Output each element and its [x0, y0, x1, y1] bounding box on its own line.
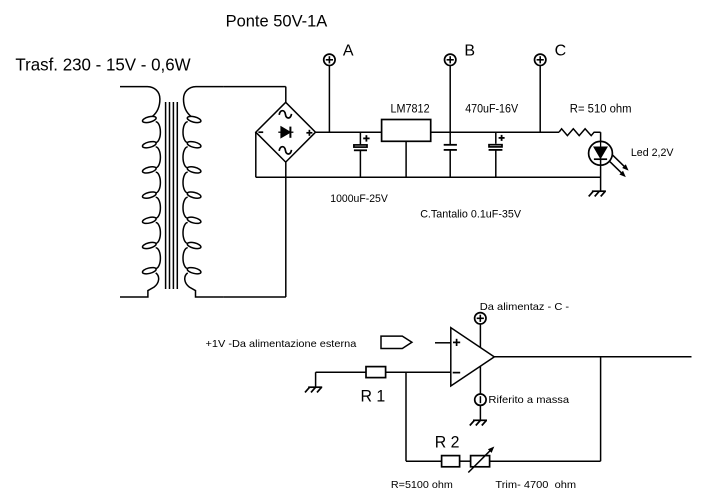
svg-text:R= 510 ohm: R= 510 ohm: [570, 103, 632, 115]
bridge diode symbol: [278, 127, 293, 138]
capacitor C1 wire top: [359, 132, 361, 144]
trimmer box: [471, 456, 490, 467]
wire bridge left tip down: [255, 132, 257, 177]
wire bridge bottom to secondary return: [285, 162, 287, 297]
wire output junction down: [600, 357, 602, 461]
capacitor C3 470uF plates: [489, 145, 502, 147]
resistor R2 box: [442, 456, 460, 467]
op-amp minus input mark: [453, 372, 461, 374]
svg-text:R 2: R 2: [435, 434, 460, 452]
svg-text:R=5100 ohm: R=5100 ohm: [391, 479, 453, 491]
resistor R1 box: [366, 367, 386, 378]
node A wire: [328, 66, 330, 133]
upper bus wire regulator to resistor: [431, 131, 559, 133]
upper bus wire bridge to regulator: [316, 131, 382, 133]
svg-text:B: B: [464, 43, 475, 60]
svg-text:R 1: R 1: [361, 388, 386, 406]
svg-text:Da alimentaz - C -: Da alimentaz - C -: [480, 301, 570, 313]
svg-text:+1V -Da alimentazione esterna: +1V -Da alimentazione esterna: [206, 338, 357, 350]
svg-text:470uF-16V: 470uF-16V: [465, 103, 518, 115]
capacitor C2 wire top: [449, 132, 451, 145]
bridge rectifier D1 diamond: [256, 102, 316, 162]
wire reference to ground: [479, 405, 481, 420]
regulator ground pin wire: [405, 141, 407, 177]
capacitor C3 wire top: [495, 132, 497, 144]
LED wire from resistor: [600, 132, 602, 141]
op-amp U1 triangle: [451, 328, 495, 386]
svg-text:A: A: [343, 43, 354, 60]
node B terminal: [445, 54, 456, 65]
svg-text:Riferito a massa: Riferito a massa: [488, 394, 569, 406]
bridge AC mark top: [279, 111, 291, 118]
wire opamp to reference: [479, 366, 481, 394]
wire feedback up to inverting input: [405, 372, 407, 461]
capacitor C2 plates: [444, 144, 457, 146]
LED wire to ground: [600, 141, 602, 147]
capacitor C1 1000uF plates: [354, 145, 367, 147]
svg-text:1000uF-25V: 1000uF-25V: [330, 193, 388, 205]
op-amp plus input mark: [453, 339, 460, 346]
wire secondary top to bridge: [285, 87, 287, 103]
op-amp ground: [470, 420, 487, 425]
LED D2 circle: [589, 141, 613, 165]
lower bus wire: [256, 176, 601, 178]
capacitor C3 wire bottom: [495, 150, 497, 177]
node B wire: [449, 66, 451, 133]
wire secondary top horizontal: [223, 86, 285, 88]
bridge plus mark: [306, 130, 312, 136]
svg-text:Trasf. 230 - 15V - 0,6W: Trasf. 230 - 15V - 0,6W: [15, 54, 190, 74]
svg-text:C.Tantalio 0.1uF-35V: C.Tantalio 0.1uF-35V: [420, 209, 521, 221]
transformer T1 secondary winding: [183, 87, 223, 297]
svg-text:Trim- 4700 ohm: Trim- 4700 ohm: [495, 479, 576, 491]
node C wire: [539, 66, 541, 133]
wire to input ground: [315, 372, 317, 387]
wire power to opamp: [479, 324, 481, 348]
svg-text:C: C: [555, 43, 567, 60]
regulator U1 LM7812 box: [382, 120, 431, 142]
wire inverting input left: [316, 371, 366, 373]
LED D2 triangle: [594, 147, 607, 158]
svg-text:Ponte 50V-1A: Ponte 50V-1A: [226, 13, 328, 31]
transformer T1 primary winding: [120, 87, 160, 297]
wire inverting input right: [386, 371, 451, 373]
op-amp power terminal: [475, 313, 486, 324]
svg-text:Led 2,2V: Led 2,2V: [631, 147, 674, 159]
input tag pentagon: [381, 336, 412, 348]
node A terminal: [324, 54, 335, 65]
capacitor C1 polarity plus: [363, 135, 369, 141]
bridge minus mark: [258, 131, 263, 133]
LED light arrow 1: [613, 155, 626, 168]
reference terminal I: [475, 394, 486, 405]
svg-text:LM7812: LM7812: [391, 103, 430, 115]
capacitor C3 polarity plus: [499, 135, 505, 141]
LED ground: [589, 191, 606, 196]
transformer T1 core: [166, 102, 178, 289]
transformer T1 secondary loops: [187, 115, 202, 275]
capacitor C2 wire bottom: [449, 150, 451, 177]
trimmer arrow: [468, 449, 491, 472]
wire feedback bottom: [406, 460, 442, 462]
node C terminal: [535, 54, 546, 65]
wire output: [494, 356, 691, 358]
transformer T1 primary loops: [142, 115, 157, 275]
LED light arrow 2: [610, 162, 623, 175]
capacitor C1 wire bottom: [359, 150, 361, 177]
wire noninverting input: [435, 342, 451, 344]
bridge AC mark bottom: [279, 147, 291, 154]
wire secondary bottom horizontal: [223, 296, 286, 298]
input ground: [305, 387, 322, 392]
resistor R 510 ohm zigzag: [559, 129, 601, 136]
